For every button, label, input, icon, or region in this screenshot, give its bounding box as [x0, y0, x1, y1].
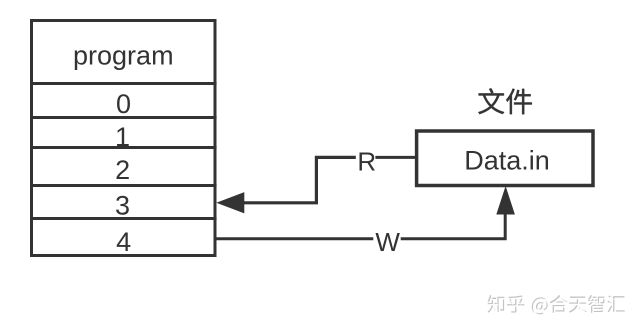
R wire right segment — [375, 156, 416, 159]
svg-text:2: 2 — [115, 155, 130, 185]
row divider 3/4 — [30, 217, 217, 220]
watermark zhihu @hetianzhihui — [488, 295, 627, 316]
label wenjian (file) — [478, 88, 532, 114]
row divider 2/3 — [30, 184, 217, 187]
svg-text:W: W — [375, 227, 400, 257]
svg-text:3: 3 — [115, 191, 130, 221]
R wire left segment with corner down to row 3 — [244, 157, 356, 202]
svg-text:0: 0 — [116, 89, 131, 119]
svg-text:program: program — [73, 41, 174, 71]
svg-text:Data.in: Data.in — [464, 146, 550, 176]
W wire left segment from program row 4 — [215, 237, 373, 240]
arrowhead into file box bottom — [496, 186, 515, 215]
svg-text:1: 1 — [115, 122, 130, 152]
svg-text:R: R — [357, 146, 376, 176]
W wire right segment with corner up to file box — [401, 214, 506, 239]
file box Data.in — [417, 131, 593, 186]
program header row divider — [30, 82, 217, 85]
svg-text:4: 4 — [116, 227, 131, 257]
row divider 1/2 — [30, 146, 217, 149]
program box — [32, 21, 216, 256]
row divider 0/1 — [30, 116, 217, 119]
arrowhead into program row 3 — [216, 192, 244, 213]
